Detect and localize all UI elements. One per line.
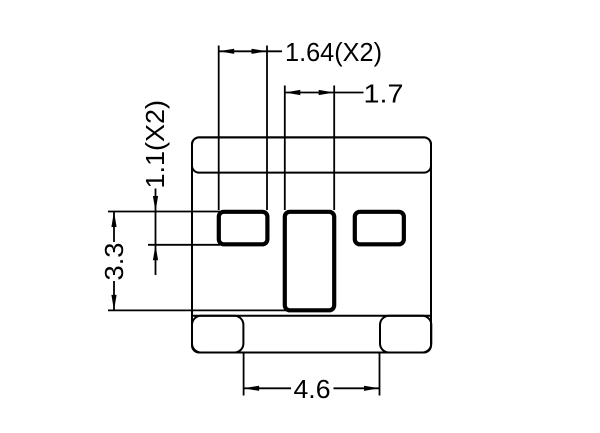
dimension 1.1(X2): label (rotated) bbox=[140, 100, 170, 189]
svg-text:1.64(X2): 1.64(X2) bbox=[285, 37, 382, 67]
dimension 1.7: dimension line bbox=[285, 90, 364, 95]
dimension 1.64(X2): dimension line bbox=[219, 49, 282, 54]
dimension 1.64(X2): label bbox=[285, 37, 382, 67]
dimension 1.1(X2): dimension line bbox=[153, 189, 158, 276]
svg-text:1.1(X2): 1.1(X2) bbox=[140, 100, 170, 189]
pad left bbox=[219, 212, 268, 245]
component body outline bbox=[192, 137, 431, 352]
svg-text:3.3: 3.3 bbox=[99, 243, 129, 281]
pad center bbox=[285, 212, 334, 310]
dimension 1.64(X2): extension line right bbox=[266, 46, 268, 211]
dimension 3.3: extension line bottom bbox=[108, 309, 286, 311]
dimension 4.6: label bbox=[294, 374, 331, 404]
dimension 4.6: extension line right bbox=[379, 353, 381, 396]
dimension 1.64(X2): extension line left bbox=[218, 46, 220, 211]
pad right bbox=[355, 212, 404, 245]
dimension 1.7: extension line right bbox=[333, 86, 335, 211]
dimension 4.6: dimension line bbox=[244, 386, 380, 391]
dimension 1.7: label bbox=[364, 79, 404, 109]
top band bbox=[192, 137, 431, 172]
dimension 3.3: label (rotated) bbox=[99, 243, 129, 281]
dimension 1.1(X2): extension line bottom bbox=[148, 244, 220, 246]
dimension 4.6: extension line left bbox=[243, 353, 245, 396]
dimension 1.1(X2): extension line top (shared with 3.3) bbox=[108, 211, 220, 213]
dimension 3.3: dimension line bbox=[111, 212, 116, 311]
bottom band line bbox=[192, 315, 431, 317]
dimension 1.7: extension line left bbox=[284, 86, 286, 211]
svg-text:4.6: 4.6 bbox=[294, 374, 331, 404]
bottom-left corner block bbox=[192, 316, 243, 353]
svg-text:1.7: 1.7 bbox=[364, 79, 404, 109]
bottom-right corner block bbox=[380, 316, 431, 353]
